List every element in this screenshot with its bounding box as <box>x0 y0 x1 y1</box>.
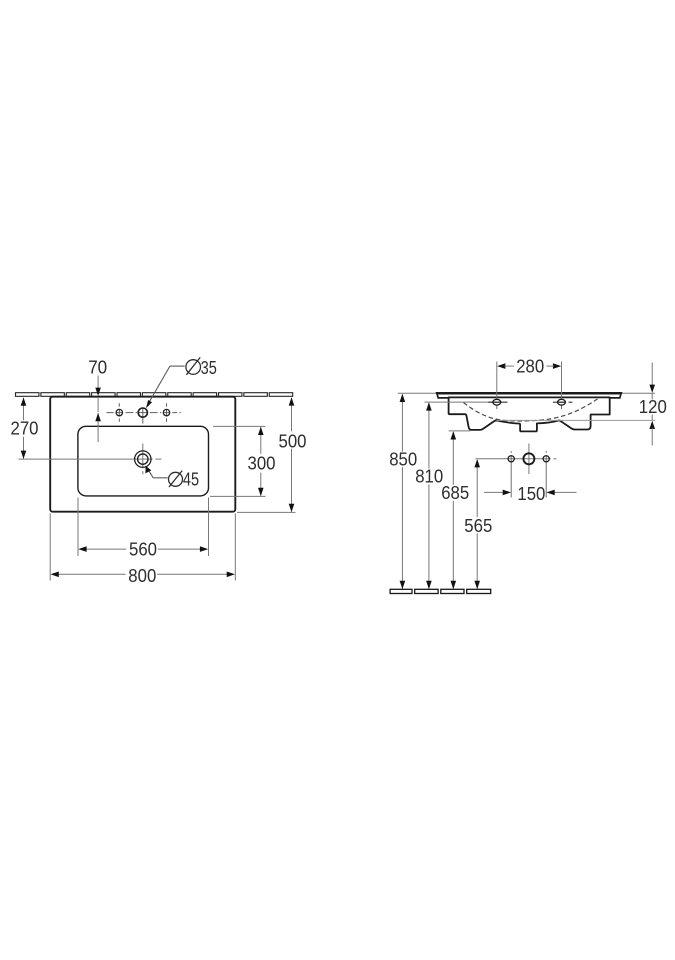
svg-text:270: 270 <box>11 418 39 438</box>
svg-text:560: 560 <box>129 540 157 560</box>
dimension 120 <box>497 419 655 421</box>
tap hole centerline <box>107 412 114 414</box>
dimension 500 <box>291 398 293 431</box>
top extension line <box>398 392 437 394</box>
svg-text:800: 800 <box>128 566 156 586</box>
washbasin outer outline (top view) <box>50 397 235 512</box>
dimension 810 <box>428 403 430 468</box>
svg-text:300: 300 <box>248 454 276 474</box>
svg-text:70: 70 <box>88 358 107 378</box>
bowl section dashed arc <box>464 399 598 421</box>
left pilot hole <box>116 409 122 415</box>
drain centerline vertical <box>142 444 144 469</box>
svg-text:120: 120 <box>639 397 667 417</box>
ext line 810 (hole height) <box>425 401 498 403</box>
dimension 560 <box>77 498 79 557</box>
fixing hole left <box>508 456 514 462</box>
dimension 270 <box>23 398 25 420</box>
dimension 850 <box>401 395 403 452</box>
dimension 685 <box>449 430 471 432</box>
drain hole (O45) <box>135 451 151 467</box>
dimension 565 <box>476 460 478 517</box>
svg-text:35: 35 <box>201 358 217 378</box>
dimension 300 <box>213 425 266 427</box>
svg-text:565: 565 <box>464 516 492 536</box>
tap hole center ticks <box>118 403 120 406</box>
wall plank segments (top view) <box>16 393 293 397</box>
svg-text:685: 685 <box>441 483 469 503</box>
svg-text:45: 45 <box>183 469 199 489</box>
countertop slab profile <box>437 393 622 398</box>
drain outlet circle <box>523 453 534 464</box>
svg-text:850: 850 <box>389 450 417 470</box>
slab mounting hole left <box>488 401 507 403</box>
inner bowl outline <box>78 426 209 496</box>
tap hole (O35) <box>138 408 147 417</box>
right pilot hole <box>163 409 169 415</box>
floor hatch bars <box>390 589 412 593</box>
wall fixing holes group <box>476 458 551 460</box>
drain centerline horizontal <box>19 458 153 460</box>
svg-text:500: 500 <box>279 431 307 451</box>
basin body profile <box>449 397 610 431</box>
fixing hole right <box>543 456 549 462</box>
ext line bottom-right of outer rect <box>237 511 296 513</box>
label O45 with leader <box>169 472 183 486</box>
svg-text:150: 150 <box>517 484 545 504</box>
dimension 280 <box>496 362 498 397</box>
dimension 800 <box>49 513 51 580</box>
slab mounting hole right <box>553 401 566 403</box>
dimension 150 <box>484 491 504 493</box>
svg-text:280: 280 <box>516 357 544 377</box>
label O35 with leader <box>186 360 201 375</box>
svg-text:810: 810 <box>415 467 443 487</box>
